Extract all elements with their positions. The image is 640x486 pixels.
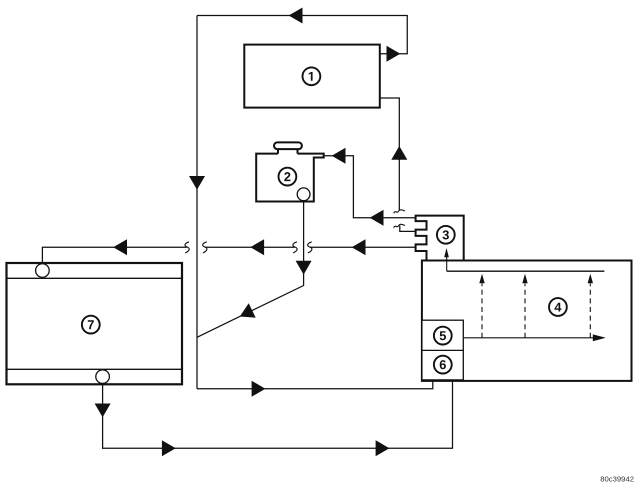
arrow right on bottom line [252,381,266,397]
wire bottom line from left vertical to component 6 stub [197,381,433,389]
label circle 1 [303,67,321,85]
wire component 2 drain with diagonal to left vertical [197,201,304,337]
arrow on top return line (left) [289,8,303,24]
wire from component 2 spout to component 3 port 1 [324,156,416,218]
component 5 and 6 outer box [422,320,463,380]
component 4 inner header line [447,270,605,272]
wire manifold segment 2 [205,246,295,248]
wire left main vertical [196,16,198,389]
small arrow right on flow line [593,334,606,341]
radiator bottom port circle [96,370,110,384]
break squiggle right end of manifold segment 1 [185,242,189,253]
arrow down below radiator [95,404,111,418]
wire resume into component 3 port 2 [400,225,416,231]
break squiggle right end of manifold segment 2 [293,242,297,253]
break squiggle upper on vertical wire [394,210,405,213]
dashed flow arrow 3 in component 4 [589,284,591,338]
wire manifold segment 3 into component 3 port 3 [310,246,416,248]
arrow on diagonal drain [240,303,256,317]
break squiggle left end of manifold segment 3 [308,242,312,253]
component 3 box with ports [416,216,464,261]
component 2 reservoir body [256,154,324,202]
small arrow up into component 3 [444,248,449,257]
radiator top tank line [7,277,183,279]
wire manifold segment 1 to radiator top port [42,247,186,263]
component 2 filler neck [278,149,298,154]
arrow left on manifold segment 2 [250,239,264,255]
label circle 6 [434,356,452,374]
break squiggle lower on vertical wire [394,224,405,227]
label circle 7 [82,316,100,334]
arrow up on component1-component3 wire [391,146,407,160]
wire riser into component 3 [446,257,448,271]
arrow out of component 1 (right) [387,46,401,62]
component 1 box [244,45,379,108]
dashed flow arrow 1 in component 4 [481,284,483,338]
svg-text:80c39942: 80c39942 [600,475,634,484]
wire from component 1 bottom to node above component 3 [380,98,400,211]
component 2 outlet port circle [297,188,310,201]
component 7 radiator box [7,263,183,384]
divider between 5 and 6 [422,349,463,351]
wire top return line [197,16,407,54]
solid flow line in component 4 [463,337,597,339]
label circle 4 [549,298,567,316]
arrow down on left main vertical [189,176,205,190]
component 2 filler cap [274,142,302,149]
break squiggle left end of manifold segment 2 [203,242,207,253]
arrow left on component3-component2 hose [370,210,384,226]
label circle 5 [434,327,452,345]
arrow left toward component 2 [332,148,346,164]
radiator top port circle [36,264,50,278]
arrow down on component 2 drain [296,261,312,275]
wire radiator bottom outlet to component 6 stub [103,381,453,448]
arrow left on manifold segment 3 [352,239,366,255]
dashed flow arrow 2 in component 4 [524,284,526,338]
arrow right 2 on lower return line [376,440,390,456]
component 4 box [422,261,632,381]
arrow left on manifold segment 1 [113,239,127,255]
label circle 3 [437,226,455,244]
label circle 2 [279,168,297,186]
radiator bottom tank line [7,368,183,370]
arrow right 1 on lower return line [162,440,176,456]
